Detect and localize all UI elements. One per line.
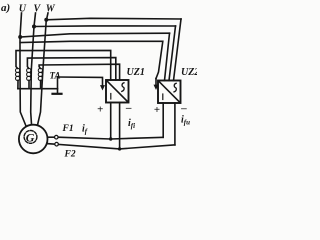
UZ2 DC bar — [162, 94, 164, 100]
wire UZ2 input mid — [169, 26, 176, 81]
svg-text:F2: F2 — [64, 150, 76, 158]
svg-text:–: – — [125, 102, 132, 114]
svg-text:G: G — [26, 131, 35, 145]
wire phase W vertical — [38, 13, 49, 125]
node W branch — [44, 18, 48, 22]
wire ground riser — [57, 77, 59, 94]
wire F1 bus to UZ plus outputs — [58, 137, 163, 139]
svg-text:а): а) — [1, 2, 10, 14]
svg-text:+: + — [97, 104, 103, 116]
wire phase V vertical — [31, 13, 36, 124]
ground — [53, 93, 62, 95]
wire UZ2 input right — [174, 19, 182, 81]
wire F2 bus to UZ minus outputs — [59, 144, 175, 149]
UZ1 AC squiggle — [122, 83, 124, 92]
node U branch — [18, 35, 22, 39]
wire V branch to UZ2 — [34, 25, 176, 28]
UZ2 AC squiggle — [174, 83, 176, 92]
generator terminal F1 stub — [47, 136, 54, 138]
current transformer TA U-phase coil — [16, 68, 20, 80]
UZ1 diagonal — [107, 81, 128, 102]
svg-text:UZ1: UZ1 — [127, 67, 145, 78]
rectifier U1 box UZ1 — [106, 80, 129, 103]
arrow into UZ1 — [100, 85, 105, 90]
wire TA-U secondary to UZ1 — [16, 50, 111, 80]
wire W branch to UZ2 — [46, 18, 181, 20]
wire UZ1 minus output — [119, 103, 121, 149]
rectifier U2 box UZ2 — [158, 81, 181, 104]
svg-text:ifu: ifu — [181, 115, 190, 127]
wire TA-W secondary to UZ1 — [39, 64, 120, 80]
wire TA secondary common bus — [18, 88, 58, 90]
wire U branch to UZ2 — [20, 33, 169, 37]
svg-text:–: – — [180, 102, 187, 114]
UZ1 DC bar — [110, 94, 112, 100]
wire control branch to UZ2 arrow — [20, 41, 163, 78]
wire TA-V secondary bottom drop — [28, 80, 30, 88]
node V branch — [32, 25, 36, 29]
generator terminal F2 stub — [47, 143, 55, 146]
wire TA common to UZ1 arrow — [58, 77, 103, 86]
svg-text:U: U — [19, 4, 27, 15]
svg-text:ifi: ifi — [128, 118, 135, 130]
generator G inner circle — [24, 131, 37, 144]
node UZ1 plus to bus — [109, 137, 112, 140]
terminal F2 circle — [55, 142, 59, 146]
UZ2 diagonal — [159, 81, 180, 102]
wire TA-V secondary to UZ1 — [27, 58, 115, 80]
wire UZ2 input left — [165, 33, 170, 80]
svg-text:if: if — [82, 124, 88, 136]
generator G outer circle — [19, 125, 48, 154]
current transformer TA V-phase coil — [27, 68, 31, 80]
wire TA-U secondary bottom drop — [17, 80, 19, 88]
svg-text:TA: TA — [50, 71, 61, 81]
wire phase U vertical — [20, 13, 26, 126]
svg-text:UZ2: UZ2 — [181, 67, 197, 78]
terminal F1 circle — [55, 135, 59, 139]
wire UZ2 minus output — [174, 103, 176, 145]
node UZ1 minus to bus — [118, 147, 121, 150]
svg-text:+: + — [154, 104, 160, 116]
svg-text:F1: F1 — [62, 124, 74, 134]
wire UZ2 plus output — [162, 103, 164, 137]
svg-text:V: V — [34, 4, 42, 15]
current transformer TA W-phase coil — [38, 68, 42, 80]
wire TA-W secondary bottom drop — [40, 80, 42, 88]
wire UZ1 plus output — [110, 103, 112, 140]
arrow into UZ2 — [155, 79, 157, 86]
